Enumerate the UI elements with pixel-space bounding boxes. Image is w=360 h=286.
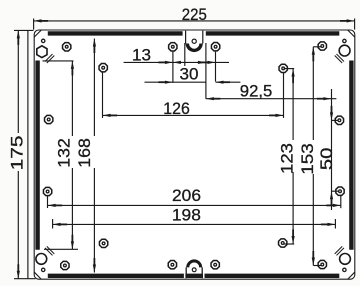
svg-text:50: 50 xyxy=(317,148,336,171)
hole bottom inner-left xyxy=(168,261,176,269)
hole top-right xyxy=(318,42,326,50)
dimension 126 xyxy=(103,99,284,118)
wall left band xyxy=(35,61,39,250)
dimension 198 xyxy=(53,206,336,226)
wall corner chamfer bottom-left xyxy=(45,246,54,255)
dimension text 30 xyxy=(180,64,199,83)
hole bottom-right xyxy=(318,260,326,268)
extension line hole second-row left xyxy=(102,73,104,119)
hole left-middle upper xyxy=(45,115,53,123)
dimension 168 vertical xyxy=(75,39,96,273)
corner boss circle bottom-right xyxy=(340,254,351,265)
extension line hole right-middle lower xyxy=(340,196,342,208)
dimension 13 line xyxy=(124,45,229,64)
wall top band xyxy=(48,31,340,35)
svg-text:153: 153 xyxy=(298,143,317,175)
svg-text:92,5: 92,5 xyxy=(240,81,272,100)
svg-text:225: 225 xyxy=(182,5,207,24)
dimension 92,5 xyxy=(206,81,337,100)
hole top-left xyxy=(63,43,71,51)
hole lower second-row right xyxy=(279,239,287,247)
wall corner chamfer top-right xyxy=(335,54,344,63)
extension line hole second-row right xyxy=(283,73,285,118)
mounting tab top center xyxy=(183,31,206,52)
extension line hole left-middle lower xyxy=(47,196,49,208)
corner chamfer top-left xyxy=(34,30,41,37)
hole lower second-row left xyxy=(99,239,107,247)
extension tick 198 left xyxy=(52,219,54,229)
hole right-middle lower xyxy=(336,187,344,195)
extension line tab right edge xyxy=(205,43,207,99)
hole right-middle upper xyxy=(335,116,343,124)
corner boss circle bottom-left xyxy=(36,254,47,265)
svg-text:168: 168 xyxy=(75,138,94,168)
hole bottom inner-right xyxy=(211,261,219,269)
svg-text:198: 198 xyxy=(172,206,201,225)
svg-text:123: 123 xyxy=(277,143,296,174)
svg-text:13: 13 xyxy=(132,45,151,64)
wall corner chamfer top-left xyxy=(45,54,54,63)
wall corner chamfer bottom-right xyxy=(335,246,344,255)
dimension 175 left height xyxy=(7,30,35,278)
mounting tab bottom center xyxy=(184,259,205,278)
wall bottom band xyxy=(48,274,340,278)
extension line hole top inner-left xyxy=(172,52,174,83)
hole second-row left xyxy=(99,64,107,72)
dimension 153 vertical xyxy=(298,47,322,266)
dimension 225 top width xyxy=(34,5,355,29)
hole bottom-left xyxy=(61,261,69,269)
hole top inner-left xyxy=(169,43,177,51)
corner screw hexagon top-left xyxy=(37,46,47,58)
svg-text:132: 132 xyxy=(55,138,74,168)
hole second-row right xyxy=(279,64,287,72)
dimension 206 xyxy=(48,186,341,207)
wall right band xyxy=(349,61,353,250)
corner chamfer top-right xyxy=(348,30,355,37)
dimension 123 vertical xyxy=(277,69,296,244)
corner pilot hole top-right xyxy=(343,39,346,42)
corner pilot hole bottom-right xyxy=(343,268,346,271)
corner boss circle top-right xyxy=(339,45,350,56)
enclosure outer outline xyxy=(34,30,355,279)
hole left-middle lower xyxy=(43,187,51,195)
svg-text:206: 206 xyxy=(172,186,201,205)
dimension 132 vertical xyxy=(43,61,79,249)
extension line tab left edge xyxy=(184,43,186,66)
left flange line xyxy=(27,30,29,278)
corner chamfer bottom-right xyxy=(348,272,355,279)
reference line y82 xyxy=(145,81,241,84)
svg-text:126: 126 xyxy=(163,99,190,118)
svg-text:30: 30 xyxy=(180,64,199,83)
hole top inner-right xyxy=(211,43,219,51)
corner pilot hole top-left xyxy=(42,39,45,42)
extension tick 198 right xyxy=(334,219,336,229)
corner chamfer bottom-left xyxy=(34,272,41,279)
dimension 50 vertical xyxy=(317,89,339,210)
corner pilot hole bottom-left xyxy=(42,268,45,271)
svg-text:175: 175 xyxy=(7,135,26,170)
extension line hole top inner-right xyxy=(215,52,217,82)
